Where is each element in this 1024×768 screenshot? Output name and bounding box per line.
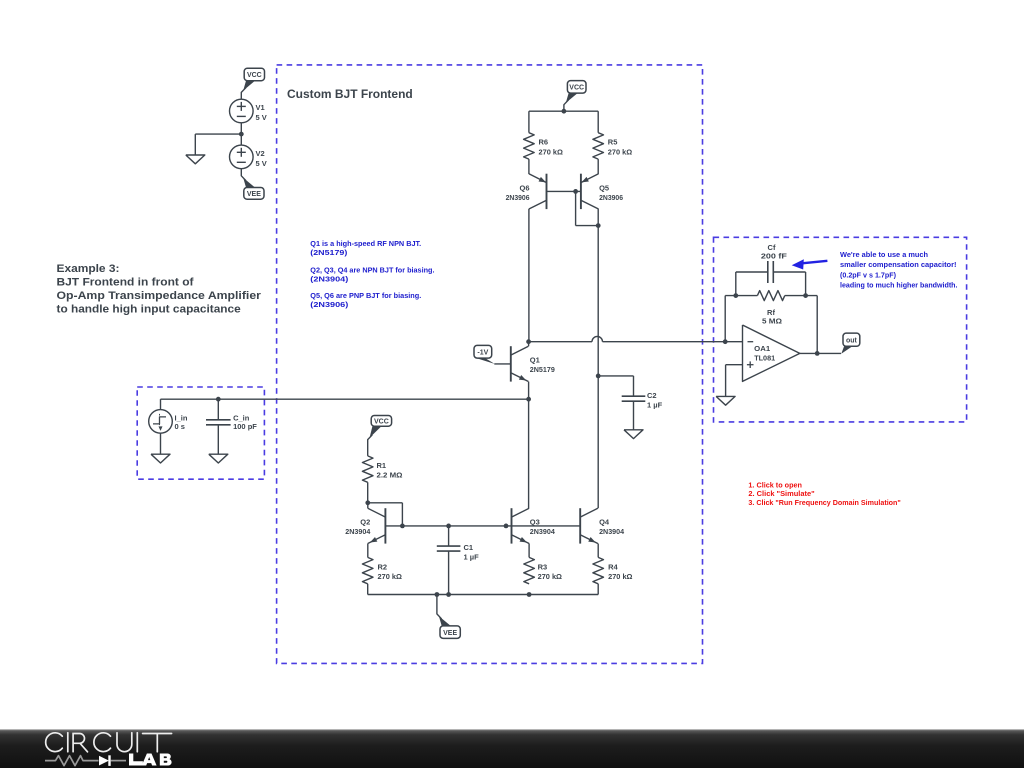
capacitor Cf [761,243,787,283]
wire non-inverting input [726,365,743,397]
svg-text:-1V: -1V [477,349,488,356]
CircuitLab logo wordmark CIRCUIT [46,733,172,752]
resistor R6 [524,133,563,159]
wire input net (I_in to Q1 emitter) [161,398,529,400]
flag out [841,333,860,354]
node output junction [815,351,820,356]
wire C1 top [448,526,450,546]
wire R2 to rail [367,584,369,595]
wire Q1 collector to op-amp (with hop) [529,336,743,341]
wire VCC to R1 [368,435,373,456]
wire Q6 base to Q5 base [547,190,581,192]
svg-text:R4: R4 [608,562,618,571]
wire -1V to Q1 base [494,363,511,365]
annotation: compensation capacitor note (blue) [840,250,958,289]
svg-text:VEE: VEE [443,630,457,637]
wire R6 to Q6 emitter [528,159,530,174]
svg-text:BJT Frontend in front of: BJT Frontend in front of [57,276,194,288]
wire C_in bottom [217,425,219,454]
wire Q2 collector-base loop [368,503,403,526]
wire Q3 collector column [528,399,530,508]
wire VCC stub [564,100,569,111]
node Q1 emitter junction [526,397,531,402]
svg-text:smaller compensation capacitor: smaller compensation capacitor! [840,260,957,269]
svg-text:V2: V2 [256,149,265,158]
svg-text:VCC: VCC [374,418,389,425]
transistor Q3 (NPN) [512,508,556,543]
wire rail to R5 [597,111,599,133]
caption: Example 3 description [57,263,262,316]
wire R4 to rail [597,584,599,595]
svg-text:Rf: Rf [767,308,775,317]
svg-text:TL081: TL081 [754,353,775,362]
resistor R5 [593,133,632,159]
svg-text:200 fF: 200 fF [761,251,787,260]
node Q2 collector tie [365,500,370,505]
svg-text:(0.2pF v s 1.7pF): (0.2pF v s 1.7pF) [840,270,896,279]
power flag VCC (supply) [243,68,264,90]
resistor R3 [524,557,562,583]
ground (C_in) [209,454,228,463]
current source I_in [149,410,188,434]
wire bias base rail [385,525,580,527]
ground (op-amp +) [716,396,735,405]
svg-text:2N5179: 2N5179 [530,365,555,374]
annotation: transistor notes (blue) [310,239,434,309]
svg-text:C2: C2 [647,391,657,400]
wire base tie down [576,191,599,225]
resistor Rf [757,291,784,326]
resistor R2 [362,557,402,583]
svg-text:270 kΩ: 270 kΩ [378,572,402,581]
wire R5 to Q5 emitter [597,159,599,174]
svg-text:Example 3:: Example 3: [57,263,120,275]
svg-text:2N3904: 2N3904 [599,527,625,536]
wire V1 to V2 [240,123,242,145]
svg-text:Q1 is a high-speed RF NPN BJT.: Q1 is a high-speed RF NPN BJT. [310,239,421,248]
capacitor C2 [622,391,663,409]
wire Q3 emitter to R3 [528,544,530,558]
node V1-V2 junction [239,132,244,137]
wire junction to ground [195,134,241,155]
power flag VEE (bottom) [439,616,460,638]
wire rail to R6 [528,111,530,133]
op-amp OA1 TL081 [743,325,800,381]
footer bar [0,729,1024,768]
node Q1 collector junction [526,339,531,344]
node inverting input junction [723,339,728,344]
wire C_in top [217,399,219,420]
wire top rail [529,110,598,112]
svg-text:OA1: OA1 [754,344,770,353]
capacitor C1 [437,543,479,561]
svg-text:R5: R5 [608,138,618,147]
node VCC rail junction [562,109,567,114]
svg-text:VEE: VEE [247,191,261,198]
dashed box: op-amp transimpedance stage [714,237,967,422]
node Q5 collector tie [596,223,601,228]
wire R1 to Q2 [367,482,369,503]
node C1 tap [446,524,451,529]
svg-text:We're able to use a much: We're able to use a much [840,250,928,259]
wire V2 to VEE [241,169,246,181]
transistor Q1 (NPN) [511,346,555,381]
wire C1 bottom [448,551,450,594]
node Q5/Q6 base tie [573,189,578,194]
ground (C2) [624,430,643,439]
logo schematic glyph (resistor + diode) [45,755,126,766]
svg-text:5 MΩ: 5 MΩ [762,317,782,326]
wire feedback left [725,296,757,342]
wire VCC to V1 [241,88,246,100]
svg-text:1 µF: 1 µF [647,400,663,409]
wire Q1 collector stub [528,342,530,347]
svg-text:Q3: Q3 [530,518,540,527]
svg-text:Q5, Q6 are PNP BJT for biasing: Q5, Q6 are PNP BJT for biasing. [310,291,421,300]
node C1 bottom [446,592,451,597]
dashed box: Custom BJT Frontend [277,65,703,664]
svg-text:(2N3906): (2N3906) [310,300,349,309]
wire Q5 collector down [597,209,599,226]
resistor R1 [362,456,402,482]
svg-text:C1: C1 [464,543,474,552]
node C_in tap [216,397,221,402]
resistor R4 [593,557,633,583]
wire I_in bottom [160,433,162,454]
svg-text:1 µF: 1 µF [464,552,480,561]
node Q3 base tie [504,524,509,529]
svg-text:270 kΩ: 270 kΩ [608,572,632,581]
svg-text:out: out [846,337,858,344]
svg-text:Op-Amp Transimpedance Amplifie: Op-Amp Transimpedance Amplifier [57,290,262,302]
svg-text:2N3906: 2N3906 [506,193,530,202]
wire Q4 emitter to R4 [597,544,599,558]
annotation arrow (blue) [792,259,828,269]
wire op-amp output [800,352,841,354]
svg-text:2N3904: 2N3904 [345,527,371,536]
svg-text:Q5: Q5 [599,183,609,192]
svg-text:2N3904: 2N3904 [530,527,556,536]
svg-text:(2N5179): (2N5179) [310,248,348,257]
node R3 bottom [527,592,532,597]
wire Q1 emitter stub [528,382,530,400]
svg-text:to handle high input capacitan: to handle high input capacitance [57,303,241,315]
voltage source V1 [230,99,267,123]
instructions (red) [748,481,901,507]
node Cf left [733,293,738,298]
wire I_in top [160,399,162,409]
svg-text:R6: R6 [539,138,549,147]
svg-text:(2N3904): (2N3904) [310,274,349,283]
node Q2 base tie [400,524,405,529]
svg-text:Q6: Q6 [519,183,529,192]
node C2 tap [596,374,601,379]
wire Q2 emitter to R2 [367,544,369,558]
wire Cf left [736,272,768,296]
svg-text:V1: V1 [256,103,265,112]
svg-text:Q2, Q3, Q4 are NPN BJT for bia: Q2, Q3, Q4 are NPN BJT for biasing. [310,265,434,274]
ground (supply midpoint) [186,155,205,164]
svg-text:R3: R3 [538,562,548,571]
wire VEE stub [437,595,442,619]
voltage source V2 [230,145,267,169]
svg-text:2.2 MΩ: 2.2 MΩ [377,471,403,480]
svg-text:270 kΩ: 270 kΩ [539,147,563,156]
svg-text:VCC: VCC [247,72,262,79]
capacitor C_in [206,413,257,430]
svg-text:0 s: 0 s [175,422,185,431]
ground (I_in) [151,454,170,463]
wire Q5 collector column [597,226,599,509]
wire Q6 collector down [528,209,530,342]
transistor Q4 (NPN) [580,508,625,543]
svg-text:Q1: Q1 [530,356,540,365]
svg-text:5 V: 5 V [256,113,267,122]
svg-text:Custom BJT Frontend: Custom BJT Frontend [287,87,413,101]
logo wordmark LAB [129,754,172,766]
svg-text:VCC: VCC [569,84,584,91]
flag -1V [474,345,495,364]
wire Q2 collector stub [367,503,369,509]
dashed box: input source (I_in / C_in) [137,387,264,479]
power flag VEE (supply) [243,178,264,199]
power flag VCC (R1) [370,416,392,438]
wire feedback right [785,296,817,354]
node Cf right [803,293,808,298]
svg-text:leading to much higher bandwid: leading to much higher bandwidth. [840,280,958,289]
svg-text:Q2: Q2 [360,518,370,527]
wire C2 bottom [633,401,635,430]
svg-text:100 pF: 100 pF [233,422,257,431]
svg-text:270 kΩ: 270 kΩ [538,572,562,581]
svg-text:R1: R1 [377,461,387,470]
svg-text:270 kΩ: 270 kΩ [608,147,632,156]
svg-text:3. Click "Run Frequency Domain: 3. Click "Run Frequency Domain Simulatio… [748,498,901,507]
svg-text:R2: R2 [378,562,388,571]
power flag VCC (frontend top) [566,81,586,103]
transistor Q6 (PNP) [506,174,547,209]
transistor Q5 (PNP) [581,174,623,209]
svg-text:5 V: 5 V [256,159,267,168]
node VEE tap [435,592,440,597]
svg-text:2N3906: 2N3906 [599,193,623,202]
wire C2 branch [598,376,633,396]
wire bottom rail [368,594,599,596]
transistor Q2 (NPN mirrored) [345,508,385,543]
svg-text:Q4: Q4 [599,518,610,527]
wire Cf right [773,272,805,296]
